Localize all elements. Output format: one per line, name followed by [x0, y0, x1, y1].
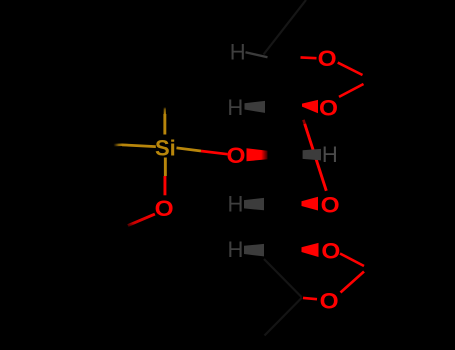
- svg-text:O: O: [320, 289, 339, 314]
- bond C5-C6 (faint): [264, 259, 302, 297]
- bond O2-Cq1: [339, 84, 364, 97]
- bond O5-Cq2: [340, 254, 364, 267]
- svg-text:Si: Si: [155, 135, 176, 160]
- bond O6-Cq2: [341, 272, 365, 293]
- svg-text:H: H: [227, 95, 243, 120]
- svg-text:O: O: [319, 96, 338, 121]
- wedge C4-O4 (red): [302, 197, 319, 211]
- wedge H4-C4 (gray): [244, 198, 264, 210]
- methyl bond Si-CH3 left: [122, 144, 156, 149]
- svg-text:O: O: [318, 46, 337, 71]
- svg-text:O: O: [321, 192, 340, 217]
- bond C1-CH2 (faint, exits top edge): [264, 0, 307, 55]
- bond C6-C7 (faint): [265, 298, 303, 336]
- svg-text:O: O: [321, 239, 340, 264]
- bond Si-O3 (olive half): [177, 148, 202, 151]
- svg-text:H: H: [228, 191, 244, 216]
- bond Si-OMe (red half): [164, 176, 167, 195]
- svg-text:O: O: [155, 196, 174, 221]
- bond H1-C1: [246, 52, 268, 57]
- svg-text:H: H: [230, 40, 246, 65]
- wedge C3-H3 (gray): [303, 149, 321, 161]
- bond Si-OMe (olive half): [164, 158, 167, 177]
- svg-text:H: H: [228, 237, 244, 262]
- bond C6-O6 (red half): [303, 298, 317, 299]
- wedge O3-C3 (red, fades toward C3): [247, 148, 268, 161]
- wedge H5-C5 (gray): [244, 244, 264, 257]
- svg-text:H: H: [322, 142, 338, 167]
- bond C2-O4 (long red diagonal): [303, 120, 304, 124]
- svg-text:O: O: [227, 143, 246, 168]
- wedge C2-O2 (red): [302, 100, 318, 113]
- bond C1-O1 (red half): [301, 56, 317, 59]
- bond O1-Cq1: [338, 63, 363, 75]
- methyl bond Si-CH3 up: [163, 114, 166, 135]
- bond Si-O3 (red half): [201, 151, 228, 154]
- wedge C5-O5 (red): [302, 243, 319, 257]
- wedge H2-C2 (gray): [245, 101, 266, 113]
- bond O-CH3 (methoxy, red fading tip): [127, 213, 155, 227]
